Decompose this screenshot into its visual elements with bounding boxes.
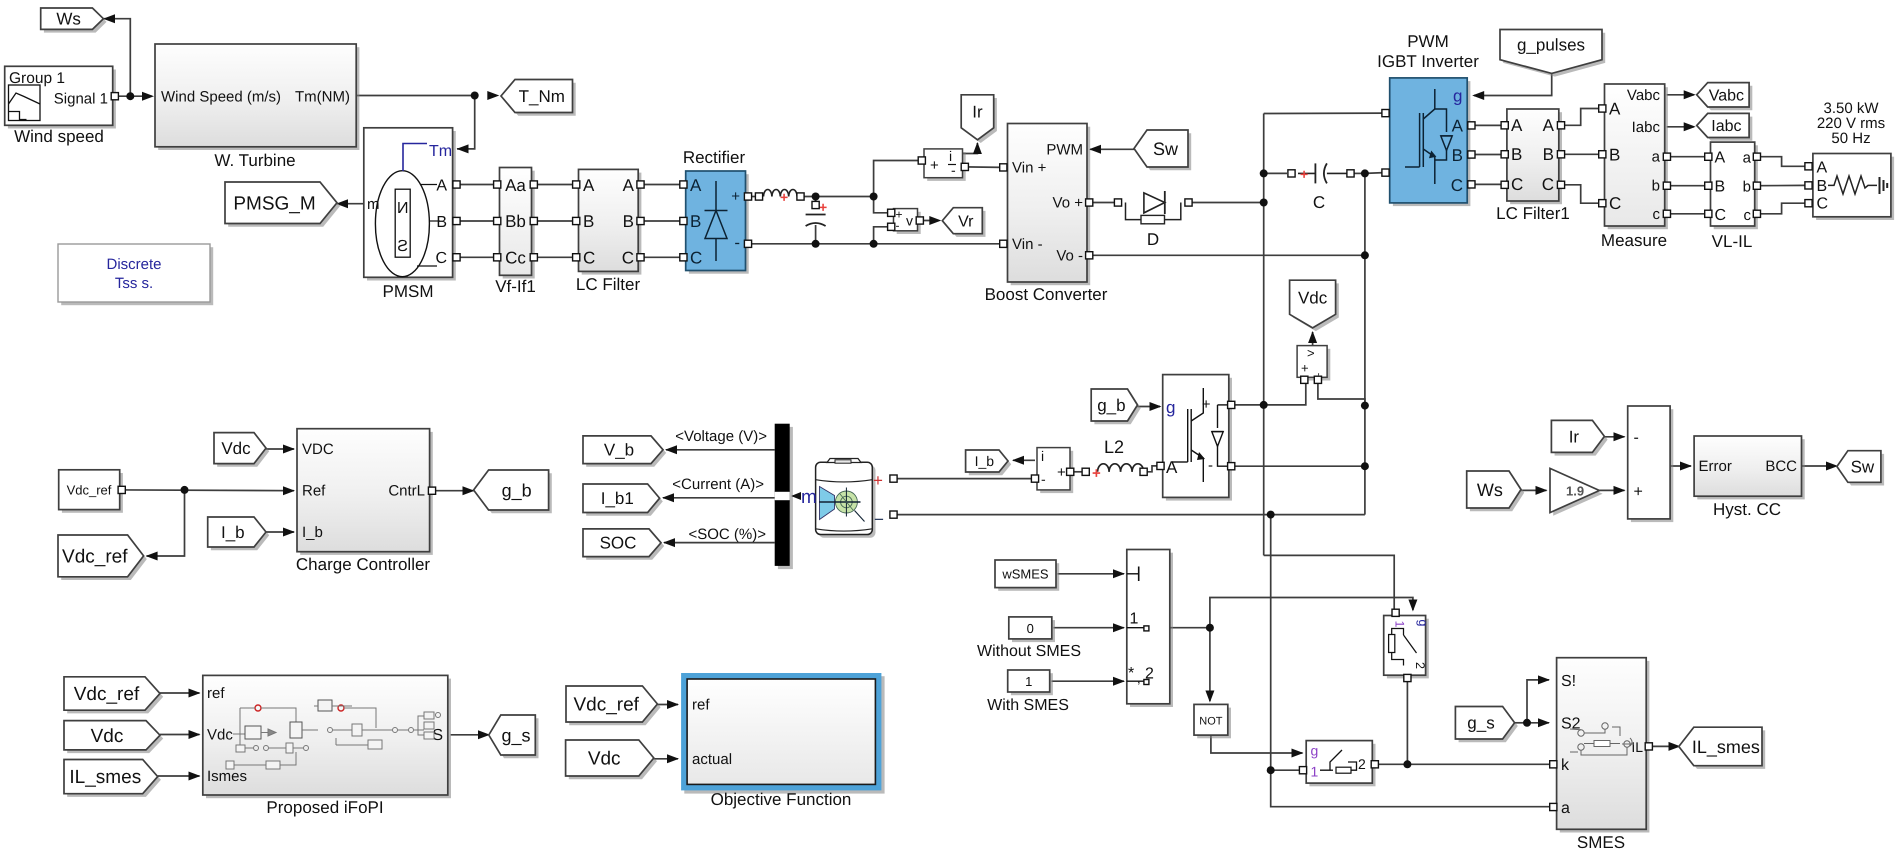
goto tag Ws top [41, 8, 107, 33]
svg-text:Vr: Vr [958, 213, 974, 230]
goto tag Vr [942, 208, 985, 237]
svg-text:Vdc: Vdc [1298, 288, 1328, 307]
label <SOC (%)> [688, 526, 766, 543]
arrow into PMSG_M goto [336, 199, 348, 208]
wire g_pulses down to inverter g [1474, 73, 1552, 95]
svg-text:+: + [1634, 484, 1643, 501]
svg-text:LC Filter: LC Filter [576, 275, 641, 294]
port square wind speed [111, 93, 118, 100]
svg-text:I_b1: I_b1 [601, 489, 634, 508]
port square charge controller out [428, 487, 435, 494]
svg-text:1: 1 [1025, 674, 1032, 689]
svg-text:Hyst. CC: Hyst. CC [1713, 500, 1781, 519]
svg-text:Charge Controller: Charge Controller [296, 555, 431, 574]
port squares Rectifier [680, 181, 752, 261]
svg-text:Vdc: Vdc [91, 726, 124, 747]
block breaker1 [1384, 616, 1430, 679]
arrow into objective ref [667, 700, 679, 709]
goto tag SOC [583, 529, 664, 560]
junction rail A capC [1260, 169, 1268, 177]
wire junction to SMES S2 [1527, 722, 1549, 724]
block Objective Function [681, 673, 885, 794]
svg-text:A: A [1715, 150, 1726, 167]
svg-text:>: > [1307, 346, 1315, 361]
svg-text:Vdc: Vdc [588, 749, 621, 770]
svg-text:B: B [1609, 145, 1620, 164]
wire inverter A to LC Filter1 [1469, 124, 1505, 126]
arrow into IL_smes goto [1669, 742, 1681, 751]
svg-text:Vdc: Vdc [207, 727, 233, 744]
wire diode D to rail A [1192, 202, 1264, 204]
wire IL_smes to iFoPI Ismes [158, 775, 200, 777]
svg-text:*: * [1128, 665, 1134, 682]
arrow into VDC port [283, 445, 295, 454]
svg-text:B: B [1511, 145, 1522, 164]
arrow into V_b goto [665, 445, 677, 454]
label IGBT Inverter [1377, 52, 1479, 71]
wire Sw from tag to boost PWM [1090, 148, 1134, 150]
junction rail A2 breaker2 [1267, 766, 1275, 774]
svg-text:A: A [1543, 116, 1555, 135]
arrow into SOC goto [663, 538, 675, 547]
block W. Turbine [155, 44, 359, 150]
svg-text:SMES: SMES [1577, 833, 1625, 852]
junction rail B Vo- [1361, 251, 1369, 259]
label Wind speed [14, 127, 104, 146]
wire Measure Vabc to tag [1667, 94, 1694, 96]
goto tag PMSG_M [225, 182, 340, 227]
block Charge Controller [297, 429, 433, 555]
wire rectifier + to inductor L1 [748, 196, 762, 198]
label Objective Function [711, 790, 852, 809]
svg-text:+: + [1057, 464, 1066, 481]
svg-text:BCC: BCC [1765, 458, 1797, 475]
svg-text:SOC: SOC [600, 534, 637, 553]
port squares LC Filter [573, 181, 645, 261]
wire VL-IL c to load C [1757, 203, 1805, 214]
wire i meas2 to I_b goto [1013, 459, 1035, 461]
svg-text:IL_smes: IL_smes [69, 767, 141, 788]
arrow into I_b1 goto [662, 493, 674, 502]
wire Measure c to VL-IL C [1667, 213, 1709, 215]
wire rectifier - to Vin- [748, 243, 1002, 245]
label Without SMES [977, 643, 1081, 660]
block constant 0 [1009, 617, 1055, 642]
label 50 Hz [1831, 130, 1870, 147]
svg-text:actual: actual [692, 751, 732, 768]
label <Voltage (V)> [675, 428, 767, 445]
arrow into SMES S2 [1538, 718, 1550, 727]
arrow into sum plus [1614, 486, 1626, 495]
wire iFoPI S to g_s goto [451, 734, 492, 736]
wire gain to sum + [1599, 489, 1624, 491]
label D [1147, 230, 1159, 249]
wire junction to Vdc_ref goto [147, 490, 185, 556]
arrow into W.Turbine input [142, 92, 154, 101]
junction switch out [1206, 624, 1214, 632]
svg-text:ref: ref [207, 685, 225, 702]
wire switch out up to breaker1 g [1210, 598, 1413, 628]
arrow into Vr goto [929, 216, 941, 225]
svg-text:I_b: I_b [975, 453, 995, 469]
wire junction to Ws goto [103, 19, 130, 97]
arrow into bus selector m [791, 492, 801, 500]
wire sum to Error [1670, 465, 1691, 467]
goto tag Ir top [961, 95, 997, 143]
svg-text:v: v [906, 213, 913, 229]
wire rail A2 to breaker2 in [1271, 769, 1300, 771]
block SMES [1557, 658, 1650, 833]
wire VL-IL a to load A [1757, 157, 1805, 167]
svg-text:PMSG_M: PMSG_M [233, 193, 315, 214]
svg-text:i: i [1041, 448, 1044, 464]
wire const1 to switch [1052, 680, 1125, 682]
from tag Sw boost [1134, 130, 1191, 170]
arrow into I_b port [283, 528, 295, 537]
port squares cap C [1288, 170, 1354, 177]
arrow into Ir top goto [973, 142, 982, 154]
arrow into g_b goto [463, 486, 475, 495]
svg-text:B: B [623, 212, 634, 231]
port squares boost [1000, 164, 1093, 259]
arrow into objective actual [667, 754, 679, 763]
svg-text:A: A [1817, 159, 1828, 176]
label LC Filter1 [1496, 204, 1570, 223]
svg-text:Discrete: Discrete [106, 256, 161, 273]
wire chopper - to rail B [1231, 465, 1365, 467]
svg-text:-: - [1634, 429, 1639, 446]
svg-text:PMSM: PMSM [383, 282, 434, 301]
svg-text:Ir: Ir [1569, 427, 1580, 446]
svg-text:g: g [1453, 87, 1462, 106]
goto tag T_Nm [501, 80, 576, 116]
label Proposed iFoPI [266, 798, 383, 817]
svg-text:A: A [690, 176, 702, 195]
svg-text:Cc: Cc [505, 249, 526, 268]
label Boost Converter [985, 285, 1108, 304]
label LC Filter [576, 275, 641, 294]
label Rectifier [683, 148, 746, 167]
wire bus selector V_b [666, 449, 775, 451]
svg-text:B: B [583, 212, 594, 231]
svg-text:C: C [583, 249, 595, 268]
arrow into Sw right goto [1826, 462, 1838, 471]
svg-text:Sw: Sw [1851, 457, 1875, 476]
svg-text:Vabc: Vabc [1627, 87, 1661, 104]
svg-text:−: − [874, 510, 884, 529]
wire breaker1 out down [1406, 678, 1408, 764]
label Charge Controller [296, 555, 431, 574]
junction + rail at cap1 [812, 193, 820, 201]
svg-text:+: + [1300, 166, 1308, 182]
wire LC1 A to Measure A [1561, 109, 1603, 126]
port squares Vf-If1 [494, 181, 538, 261]
block Hyst. CC [1694, 436, 1805, 499]
junction + rail to imeas [870, 193, 878, 201]
wire rail A bottom to breaker1 in1 [1264, 555, 1395, 610]
svg-text:A: A [1166, 458, 1178, 477]
port squares SMES [1550, 743, 1653, 811]
wire Vo+ to diode D [1089, 202, 1115, 204]
wire battery m to bus selector [792, 495, 800, 497]
goto tag g_s bottom [489, 715, 539, 758]
arrow into switch wSMES [1113, 569, 1125, 578]
inductor L1 [764, 189, 798, 205]
label Measure [1601, 231, 1667, 250]
junction Tm(NM)/T_Nm [471, 92, 479, 100]
goto tag V_b [583, 436, 666, 467]
label Hyst. CC [1713, 500, 1781, 519]
from tag IL_smes b1 [64, 760, 161, 797]
junction breaker1/k wire [1403, 760, 1411, 768]
wire bus selector I_b1 [663, 497, 775, 499]
svg-text:A: A [1511, 116, 1523, 135]
svg-text:b: b [1743, 179, 1751, 196]
arrow into breaker1 g [1408, 600, 1417, 612]
svg-text:0: 0 [1027, 621, 1034, 636]
wire i meas2 out to L2 [1070, 471, 1084, 473]
block Wind speed source [5, 66, 116, 128]
svg-text:+: + [1301, 361, 1309, 376]
label 3.50 kW [1823, 100, 1879, 117]
svg-text:Vo -: Vo - [1056, 248, 1083, 265]
arrow into iFoPI ref [189, 689, 201, 698]
port squares L2 [1082, 468, 1147, 475]
port square Vdc_ref const [118, 486, 125, 493]
wire - rail tap to v meas - [874, 227, 892, 244]
port squares inductor L1 [755, 193, 804, 200]
svg-text:c: c [1744, 207, 1752, 224]
svg-text:Wind Speed (m/s): Wind Speed (m/s) [161, 89, 281, 106]
wire cap C right to rail B [1354, 172, 1365, 174]
svg-text:C: C [690, 249, 702, 268]
svg-text:Rectifier: Rectifier [683, 148, 746, 167]
svg-text:-: - [951, 162, 956, 178]
svg-text:B: B [1817, 178, 1828, 195]
svg-text:+: + [873, 471, 883, 490]
svg-text:IGBT Inverter: IGBT Inverter [1377, 52, 1479, 71]
svg-text:g_b: g_b [502, 480, 532, 500]
svg-text:g_s: g_s [501, 725, 530, 745]
wire Measure a to VL-IL A [1667, 156, 1709, 158]
port squares breaker2 [1299, 761, 1378, 774]
arrow into NOT [1205, 691, 1214, 703]
port squares current meas I1 [918, 157, 968, 171]
goto tag Vdc_ref left [58, 535, 147, 580]
arrow into boost PWM [1089, 145, 1101, 154]
svg-text:+: + [819, 199, 827, 215]
from tag g_b chopper [1091, 389, 1141, 424]
wire Vdc_ref to iFoPI ref [160, 692, 200, 694]
from tag g_s smes [1455, 707, 1517, 743]
svg-text:Ir: Ir [972, 102, 983, 121]
svg-text:IL_smes: IL_smes [1692, 737, 1760, 757]
block constant 1 [1008, 670, 1053, 695]
svg-text:g_s: g_s [1467, 714, 1494, 733]
svg-text:Without SMES: Without SMES [977, 643, 1081, 660]
label m bus [801, 487, 817, 508]
block VL-IL [1711, 142, 1758, 229]
wire const0 to switch [1054, 627, 1125, 629]
wire CntrL to g_b goto [432, 490, 477, 492]
label VL-IL [1712, 232, 1753, 251]
wire Measure b to VL-IL B [1667, 185, 1709, 187]
label SMES [1577, 833, 1625, 852]
label <Current (A)> [672, 476, 764, 493]
svg-text:1.9: 1.9 [1566, 484, 1584, 499]
goto tag g_b cc [474, 470, 552, 513]
wire junction down to PMSM Tm input [457, 96, 475, 149]
wire Vdc to objective actual [654, 758, 678, 760]
wire Vdc_ref const to Ref [122, 489, 295, 492]
svg-text:g: g [1311, 743, 1319, 759]
block Vdc_ref constant [59, 470, 123, 513]
port squares chopper [1157, 401, 1235, 470]
svg-text:A: A [623, 176, 635, 195]
svg-text:C: C [1715, 207, 1727, 224]
from tag Vdc b2 [566, 740, 657, 779]
svg-text:A: A [1609, 100, 1621, 119]
svg-text:wSMES: wSMES [1001, 567, 1049, 582]
svg-text:S: S [397, 238, 408, 255]
svg-text:B: B [436, 214, 447, 231]
wire PMSM phase B to Vf-If1 [457, 220, 498, 222]
arrow into Error port [1680, 462, 1692, 471]
svg-text:C: C [622, 249, 634, 268]
svg-text:a: a [1561, 800, 1570, 817]
port squares i meas2 [1031, 468, 1073, 482]
svg-text:C: C [1451, 176, 1463, 195]
svg-text:Ws: Ws [1477, 480, 1503, 500]
capacitor C [1298, 163, 1347, 183]
svg-text:A: A [1452, 117, 1464, 136]
junction rail A chopper+ [1260, 401, 1268, 409]
wire LC Filter phase C to Rectifier [640, 256, 684, 258]
svg-text:a: a [1743, 150, 1752, 167]
svg-text:Vin +: Vin + [1012, 159, 1047, 176]
arrow into gain [1536, 486, 1548, 495]
label 220 V rms [1817, 115, 1885, 132]
arrow into g_s goto [478, 730, 490, 739]
svg-text:Vabc: Vabc [1709, 87, 1744, 104]
svg-text:m: m [367, 196, 380, 213]
junction rail B vdcmeas [1361, 402, 1369, 410]
wire Vo- to rail B [1089, 254, 1365, 256]
svg-text:+: + [1092, 465, 1101, 482]
wire SMES IL out to IL_smes goto [1648, 745, 1682, 747]
label PWM [1407, 32, 1449, 51]
wire g_b from to chopper g [1138, 406, 1161, 408]
svg-text:VDC: VDC [302, 441, 334, 458]
wire LC1 C to Measure C [1561, 185, 1603, 203]
svg-text:PWM: PWM [1407, 32, 1449, 51]
wire rail A to cap C left [1264, 172, 1287, 174]
svg-text:Vin -: Vin - [1012, 236, 1043, 253]
wire LC Filter phase A to Rectifier [640, 184, 684, 186]
svg-text:Proposed iFoPI: Proposed iFoPI [266, 798, 383, 817]
wire L2 to chopper A [1144, 466, 1161, 472]
block PMSM [364, 128, 456, 281]
arrow into breaker2 g [1292, 749, 1304, 758]
wire cap1 bottom stub [815, 225, 817, 244]
block NOT [1194, 704, 1231, 738]
svg-text:g: g [1416, 620, 1430, 627]
block Discrete [58, 244, 213, 305]
wire Tm(NM) to T_Nm and PMSM Tm [356, 95, 472, 97]
svg-text:Tss s.: Tss s. [115, 275, 153, 292]
svg-text:Tm: Tm [429, 143, 452, 160]
wire chopper + to rail A / vdc meas [1231, 380, 1306, 405]
svg-text:-: - [896, 219, 900, 233]
svg-text:Wind speed: Wind speed [14, 127, 104, 146]
svg-text:NOT: NOT [1199, 716, 1223, 728]
arrow into iFoPI Vdc [189, 730, 201, 739]
port squares inverter [1382, 110, 1475, 189]
goto tag Iabc [1697, 113, 1753, 140]
wire I_b from to I_b port [266, 531, 294, 533]
wire i meas to Ir tag [961, 143, 978, 154]
svg-text:N: N [397, 200, 409, 217]
svg-text:Vdc_ref: Vdc_ref [62, 547, 128, 568]
wire battery + to i meas [896, 478, 1036, 480]
wire + rail up to current meas [874, 161, 922, 197]
port square cap1 [812, 201, 819, 208]
block current measurement I1 [924, 148, 966, 181]
from tag Vdc b1 [64, 721, 163, 754]
svg-text:Vdc_ref: Vdc_ref [573, 695, 639, 716]
capacitor C1 [806, 199, 828, 226]
wire current meas out to Vin+ [965, 166, 1002, 169]
block sum [1628, 406, 1674, 522]
inductor L2 [1092, 464, 1144, 482]
svg-text:With SMES: With SMES [987, 697, 1069, 714]
svg-text:A: A [583, 176, 595, 195]
wire wSMES to switch [1058, 573, 1125, 575]
svg-text:Boost Converter: Boost Converter [985, 285, 1108, 304]
svg-text:a: a [1652, 149, 1661, 166]
wire LC1 B to Measure B [1561, 153, 1603, 155]
from tag Vdc cc [214, 433, 269, 467]
junction rail B chopper- [1361, 462, 1369, 470]
from tag I_b cc [208, 517, 270, 550]
wire rail A2 vertical to corner [1271, 515, 1551, 807]
svg-text:g: g [1166, 398, 1175, 417]
wire breaker2 out to SMES k [1374, 763, 1550, 765]
goto tag g_pulses [1500, 30, 1605, 77]
arrow into switch in1 [1113, 623, 1125, 632]
wire + rail tap to v meas + [874, 197, 892, 213]
arrow into chopper g [1150, 402, 1162, 411]
svg-text:Vf-If1: Vf-If1 [495, 277, 536, 296]
wire Vf-If1 phase A to LC Filter [534, 184, 577, 186]
goto tag I_b1 [583, 484, 663, 516]
svg-text:I_b: I_b [221, 523, 245, 542]
svg-text:C: C [1542, 175, 1554, 194]
svg-text:L2: L2 [1104, 437, 1124, 457]
wire LC Filter phase B to Rectifier [640, 220, 684, 222]
svg-text:Vdc: Vdc [221, 439, 251, 458]
block LC Filter1 [1507, 109, 1562, 204]
wire junction up to SMES S! [1527, 680, 1549, 723]
svg-text:C: C [1313, 193, 1325, 212]
block Rectifier [686, 171, 749, 274]
goto tag IL_smes right [1679, 727, 1765, 769]
wire Ws from to gain [1521, 489, 1547, 491]
svg-text:C: C [1817, 196, 1829, 213]
svg-text:1: 1 [1311, 764, 1319, 780]
svg-text:S!: S! [1561, 673, 1576, 690]
svg-text:LC Filter1: LC Filter1 [1496, 204, 1570, 223]
